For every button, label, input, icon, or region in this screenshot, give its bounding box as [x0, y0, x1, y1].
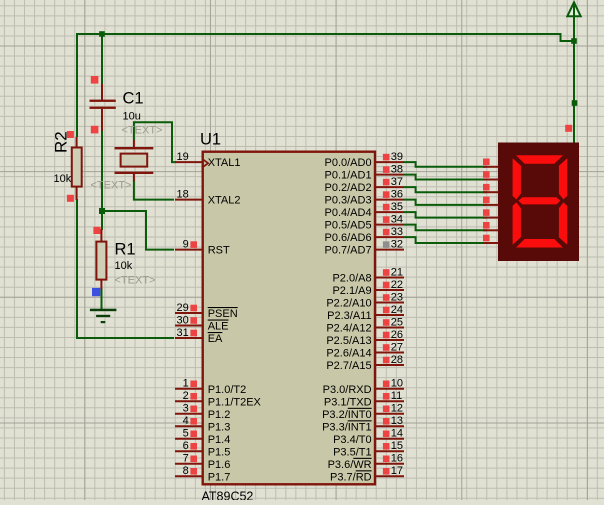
pin 11 P3.1/TXD	[376, 400, 405, 402]
svg-text:22: 22	[391, 279, 403, 291]
svg-text:25: 25	[391, 316, 403, 328]
pin 6 P1.5	[175, 450, 203, 452]
svg-text:<TEXT>: <TEXT>	[91, 180, 132, 192]
pin 5 P1.4	[175, 438, 203, 440]
svg-text:P2.2/A10: P2.2/A10	[326, 298, 371, 310]
resistor R2 bottom stub	[76, 187, 78, 200]
svg-text:P0.1/AD1: P0.1/AD1	[325, 170, 372, 182]
svg-text:R2: R2	[52, 131, 71, 153]
wire R1 bottom to ground	[101, 288, 103, 310]
svg-text:3: 3	[183, 403, 189, 415]
crystal body	[121, 154, 148, 167]
svg-text:AT89C52: AT89C52	[202, 490, 254, 501]
resistor R2 bottom terminal marker	[67, 195, 74, 202]
crystal bottom stub	[133, 174, 135, 181]
wire power arrow column down to display top pin	[573, 17, 575, 144]
svg-text:10: 10	[391, 378, 403, 390]
svg-text:28: 28	[391, 354, 403, 366]
capacitor C1 top stub	[101, 84, 103, 100]
pin 37 P0.2/AD2	[376, 186, 405, 188]
svg-text:9: 9	[183, 238, 189, 250]
svg-text:34: 34	[391, 213, 403, 225]
wire junction A down to R1	[101, 211, 103, 230]
pin 28 P2.7/A15	[376, 364, 405, 366]
pin 35 P0.4/AD4	[376, 211, 405, 213]
display pin stub 6	[483, 229, 499, 231]
svg-text:P1.1/T2EX: P1.1/T2EX	[208, 396, 262, 408]
display top pin marker	[565, 125, 572, 132]
wire C1 bottom to junction A	[101, 130, 103, 212]
svg-text:39: 39	[391, 151, 403, 163]
pin 15 P3.5/T1	[376, 450, 405, 452]
node A junction C1/R1/RST	[99, 208, 105, 214]
svg-text:P1.6: P1.6	[208, 459, 231, 471]
svg-text:14: 14	[391, 428, 403, 440]
svg-text:P3.2/INT0: P3.2/INT0	[322, 409, 372, 421]
wire P0.5 to display segment 5	[404, 225, 487, 231]
svg-text:<TEXT>: <TEXT>	[122, 125, 163, 137]
pin 17 P3.7/RD	[376, 475, 405, 477]
svg-text:XTAL1: XTAL1	[208, 157, 241, 169]
pin 30 ALE	[175, 325, 203, 327]
svg-text:C1: C1	[123, 89, 144, 107]
wire crystal bottom to XTAL2	[134, 180, 174, 200]
svg-text:10k: 10k	[54, 173, 72, 185]
pin 27 P2.6/A14	[376, 352, 405, 354]
svg-text:15: 15	[391, 440, 403, 452]
junction display column	[572, 100, 578, 106]
svg-text:ALE: ALE	[208, 321, 229, 333]
capacitor C1 bottom terminal marker	[91, 126, 99, 134]
pin 4 P1.3	[175, 425, 203, 427]
display segment c	[559, 202, 567, 244]
display pin stub 4	[483, 204, 499, 206]
svg-text:P0.3/AD3: P0.3/AD3	[325, 195, 372, 207]
svg-text:18: 18	[177, 188, 189, 200]
pin 31 EA	[175, 337, 203, 339]
ground symbol	[90, 309, 117, 312]
svg-text:XTAL2: XTAL2	[208, 195, 241, 207]
display segment a	[516, 155, 563, 164]
resistor R1 bottom stub	[100, 280, 102, 289]
pin 1 P1.0/T2	[175, 388, 203, 390]
svg-text:P0.4/AD4: P0.4/AD4	[325, 207, 372, 219]
svg-text:P1.7: P1.7	[208, 471, 231, 483]
capacitor C1 top terminal marker	[91, 76, 99, 84]
svg-text:P2.1/A9: P2.1/A9	[332, 285, 371, 297]
resistor R2 top stub	[76, 137, 78, 148]
svg-text:P0.2/AD2: P0.2/AD2	[325, 182, 372, 194]
junction top rail / C1	[99, 31, 105, 37]
display pin stub 7	[483, 242, 499, 244]
power terminal arrow	[567, 2, 580, 16]
svg-text:R1: R1	[115, 241, 136, 259]
svg-text:P3.1/TXD: P3.1/TXD	[324, 396, 372, 408]
wire R2 bottom to EA corner	[77, 199, 174, 338]
7-segment display body	[498, 143, 579, 262]
svg-text:37: 37	[391, 176, 403, 188]
wire P0.1 to display segment 1	[404, 175, 487, 180]
svg-text:2: 2	[183, 390, 189, 402]
pin 10 P3.0/RXD	[376, 388, 405, 390]
svg-text:30: 30	[177, 314, 189, 326]
wire P0.4 to display segment 4	[404, 212, 487, 218]
pin 7 P1.6	[175, 463, 203, 465]
pin 18 XTAL2	[175, 199, 203, 201]
capacitor C1 plates	[90, 100, 116, 102]
svg-text:32: 32	[391, 238, 403, 250]
svg-text:PSEN: PSEN	[208, 308, 238, 320]
crystal top stub	[133, 140, 135, 148]
display pin stub 1	[483, 166, 499, 168]
svg-text:P3.6/WR: P3.6/WR	[328, 459, 372, 471]
svg-text:RST: RST	[208, 245, 230, 257]
pin 22 P2.1/A9	[376, 289, 405, 291]
svg-text:10k: 10k	[115, 260, 133, 272]
display pin stub 3	[483, 191, 499, 193]
crystal top plate	[115, 147, 154, 149]
wire crystal top to XTAL1	[134, 122, 176, 162]
svg-text:P2.7/A15: P2.7/A15	[326, 360, 371, 372]
pin 13 P3.3/INT1	[376, 425, 405, 427]
svg-text:5: 5	[183, 428, 189, 440]
wire top rail from R2 column to power arrow column	[77, 34, 574, 41]
pin 38 P0.1/AD1	[376, 174, 405, 176]
svg-text:19: 19	[177, 151, 189, 163]
svg-text:P1.5: P1.5	[208, 446, 231, 458]
wire junction A to RST	[101, 211, 174, 250]
pin 2 P1.1/T2EX	[175, 400, 203, 402]
svg-text:23: 23	[391, 291, 403, 303]
svg-text:12: 12	[391, 403, 403, 415]
pin 24 P2.3/A11	[376, 314, 405, 316]
wire P0.3 to display segment 3	[404, 200, 487, 205]
svg-text:P2.6/A14: P2.6/A14	[326, 348, 371, 360]
capacitor C1 bottom stub	[101, 109, 103, 131]
svg-text:P2.0/A8: P2.0/A8	[332, 273, 371, 285]
pin 26 P2.5/A13	[376, 339, 405, 341]
svg-text:29: 29	[177, 302, 189, 314]
pin 12 P3.2/INT0	[376, 413, 405, 415]
pin 32 P0.7/AD7	[376, 249, 405, 251]
wire P0.0 to display segment 0	[404, 162, 487, 167]
svg-text:P3.3/INT1: P3.3/INT1	[322, 421, 372, 433]
pin 8 P1.7	[175, 475, 203, 477]
display segment g	[518, 197, 560, 204]
resistor R1 top stub	[100, 229, 102, 242]
svg-text:P3.4/T0: P3.4/T0	[333, 434, 372, 446]
svg-text:P0.6/AD6: P0.6/AD6	[325, 232, 372, 244]
svg-text:P1.2: P1.2	[208, 409, 231, 421]
pin 19 XTAL1 clock chevron	[203, 159, 208, 167]
svg-text:P2.3/A11: P2.3/A11	[327, 310, 371, 322]
wire R2 column vertical (top rail to R2)	[76, 33, 78, 137]
resistor R2 top terminal marker	[67, 131, 74, 138]
svg-text:P0.0/AD0: P0.0/AD0	[325, 157, 372, 169]
chip U1 AT89C52 body	[203, 152, 375, 485]
display segment e	[513, 202, 521, 244]
svg-text:17: 17	[391, 465, 403, 477]
pin 21 P2.0/A8	[376, 277, 405, 279]
svg-text:10u: 10u	[123, 111, 141, 123]
resistor R1 bottom terminal marker (blue)	[92, 288, 100, 296]
svg-text:33: 33	[391, 226, 403, 238]
junction top rail / arrow column	[571, 38, 577, 44]
svg-text:U1: U1	[200, 131, 221, 149]
svg-text:P3.5/T1: P3.5/T1	[333, 446, 372, 458]
svg-text:P3.0/RXD: P3.0/RXD	[323, 384, 372, 396]
svg-text:P0.5/AD5: P0.5/AD5	[325, 220, 372, 232]
svg-text:7: 7	[183, 453, 189, 465]
display pin stub 5	[483, 217, 499, 219]
resistor R2 body	[72, 148, 82, 187]
svg-text:26: 26	[391, 329, 403, 341]
pin 19 XTAL1	[175, 161, 203, 163]
svg-text:1: 1	[183, 378, 189, 390]
display pin stub 2	[483, 179, 499, 181]
pin 29 PSEN	[175, 312, 203, 314]
svg-text:4: 4	[183, 415, 189, 427]
svg-text:6: 6	[183, 440, 189, 452]
svg-text:<TEXT>: <TEXT>	[115, 275, 156, 287]
svg-text:16: 16	[391, 453, 403, 465]
svg-text:EA: EA	[208, 333, 223, 345]
wire P0.6 to display segment 6	[404, 237, 487, 243]
svg-text:8: 8	[183, 465, 189, 477]
pin 23 P2.2/A10	[376, 302, 405, 304]
svg-text:24: 24	[391, 304, 403, 316]
pin 9 RST	[175, 249, 203, 251]
wire C1 top column	[101, 33, 103, 84]
svg-text:P1.0/T2: P1.0/T2	[208, 384, 247, 396]
display segment b	[559, 158, 567, 199]
svg-text:38: 38	[391, 163, 403, 175]
pin 25 P2.4/A12	[376, 327, 405, 329]
svg-text:P1.3: P1.3	[208, 421, 231, 433]
svg-text:P0.7/AD7: P0.7/AD7	[325, 245, 372, 257]
display segment f	[513, 158, 521, 199]
svg-text:P2.4/A12: P2.4/A12	[326, 323, 371, 335]
svg-text:P3.7/RD: P3.7/RD	[330, 471, 372, 483]
svg-text:31: 31	[177, 327, 189, 339]
pin 36 P0.3/AD3	[376, 199, 405, 201]
display segment d	[516, 239, 563, 248]
crystal bottom plate	[115, 172, 154, 174]
pin 39 P0.0/AD0	[376, 161, 405, 163]
svg-text:35: 35	[391, 201, 403, 213]
pin 14 P3.4/T0	[376, 438, 405, 440]
wire P0.2 to display segment 2	[404, 187, 487, 192]
pin 16 P3.6/WR	[376, 463, 405, 465]
svg-text:36: 36	[391, 188, 403, 200]
svg-text:13: 13	[391, 415, 403, 427]
pin 34 P0.5/AD5	[376, 224, 405, 226]
svg-text:P2.5/A13: P2.5/A13	[326, 335, 371, 347]
svg-text:11: 11	[391, 390, 402, 402]
svg-text:P1.4: P1.4	[208, 434, 231, 446]
pin 3 P1.2	[175, 413, 203, 415]
resistor R1 body	[96, 242, 106, 280]
svg-text:21: 21	[391, 266, 403, 278]
svg-text:27: 27	[391, 341, 403, 353]
pin 33 P0.6/AD6	[376, 236, 405, 238]
resistor R1 top terminal marker	[93, 227, 100, 234]
